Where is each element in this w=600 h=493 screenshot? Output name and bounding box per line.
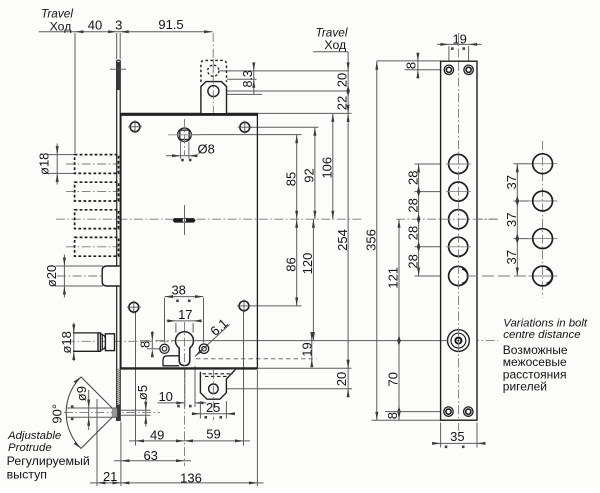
svg-text:ø18: ø18 xyxy=(37,153,52,175)
dim 21-136 line xyxy=(90,482,264,484)
body top edge extension right xyxy=(257,112,351,114)
side faceplate bottom cap xyxy=(116,419,121,421)
screw diam5 leaders xyxy=(121,409,151,411)
extension right screws x=243.5 xyxy=(243,311,245,446)
centreline overlay spindle xyxy=(184,119,186,156)
extension x=97 for 21 xyxy=(96,399,98,486)
plate bolt hole 3 xyxy=(449,210,468,229)
svg-text:10: 10 xyxy=(158,389,172,404)
svg-text:37: 37 xyxy=(504,250,519,264)
extension lines 38 xyxy=(164,298,166,343)
variation bolt hole 3 xyxy=(533,229,553,249)
svg-text:121: 121 xyxy=(386,267,401,289)
svg-text:Ход: Ход xyxy=(324,38,346,52)
extension lines 35 xyxy=(440,423,442,448)
leader top screws y=69.8 xyxy=(405,69,442,71)
dim 121-70-8 chain line xyxy=(398,219,400,420)
lock body bottom edge band xyxy=(121,367,258,369)
arrow 40 right xyxy=(108,30,117,33)
plate top edge extension left xyxy=(377,60,441,62)
euro cylinder profile xyxy=(176,332,194,366)
svg-text:ø20: ø20 xyxy=(44,265,59,287)
front faceplate outline xyxy=(441,61,477,420)
variation hole 4 variant arc xyxy=(546,269,552,283)
cylinder pin collar xyxy=(101,334,103,350)
bottom tab xyxy=(200,369,235,399)
top tab retracted hole dashed xyxy=(208,65,219,76)
plate hole3 centreline xyxy=(396,218,498,220)
arrow 91.5 left xyxy=(120,30,129,33)
svg-text:106: 106 xyxy=(320,157,335,179)
plate centreline vertical xyxy=(458,33,460,431)
dim 28 chain line xyxy=(418,164,420,276)
dim 120 line xyxy=(312,219,314,340)
deadbolt B2 dashed xyxy=(75,182,119,201)
extension faceplate back x=120.9 bottom xyxy=(120,422,122,487)
plate top screw left xyxy=(444,65,453,74)
leader top screws y=127.2 xyxy=(250,126,319,128)
cylinder fixing hole right xyxy=(199,344,208,353)
svg-text:ø18: ø18 xyxy=(59,331,74,353)
svg-text:22: 22 xyxy=(335,96,350,110)
svg-text:8: 8 xyxy=(385,412,400,419)
svg-text:Travel: Travel xyxy=(41,7,73,21)
centreline overlay top tab xyxy=(212,59,214,113)
deadbolt B3 dashed xyxy=(75,210,119,229)
svg-text:85: 85 xyxy=(283,172,298,186)
plate bolt hole 4 xyxy=(449,237,468,256)
svg-text:Регулируемый: Регулируемый xyxy=(7,454,90,468)
top tab hole xyxy=(208,86,219,97)
variation bolt hole 1 xyxy=(533,154,553,174)
svg-text:49: 49 xyxy=(150,428,164,443)
pin centreline y=341 xyxy=(66,340,177,342)
bottom tab hidden top dashes xyxy=(203,373,234,375)
extension lines 25 xyxy=(199,401,201,419)
svg-text:37: 37 xyxy=(504,213,519,227)
svg-text:19: 19 xyxy=(300,342,315,356)
extension lines 19 top xyxy=(448,46,450,66)
plate bottom screw left xyxy=(444,407,453,416)
svg-text:35: 35 xyxy=(450,429,464,444)
dim 85 line xyxy=(296,135,298,220)
dim 8.3 line xyxy=(253,64,255,95)
screw axis dashdot xyxy=(64,412,160,414)
leader solid-circle lower y=94.4 xyxy=(220,93,263,95)
centre axis solid segment xyxy=(184,205,186,235)
variation leaders xyxy=(514,163,534,165)
side faceplate screw area fill xyxy=(117,62,120,90)
top tab solid xyxy=(201,82,227,113)
cylinder axis left dashdot xyxy=(140,340,178,342)
leader 6.1 xyxy=(195,325,230,357)
dim 86 line xyxy=(296,219,298,306)
side faceplate right line xyxy=(119,60,121,420)
top tab retracted dashed xyxy=(201,60,227,82)
svg-text:Ход: Ход xyxy=(50,20,72,34)
svg-text:Variations in bolt: Variations in bolt xyxy=(503,317,588,329)
arrow 91.5 right xyxy=(204,30,213,33)
svg-text:ø9: ø9 xyxy=(74,386,89,401)
svg-text:17: 17 xyxy=(178,307,192,322)
dim 19 top line xyxy=(437,43,482,45)
lock body top edge band xyxy=(121,113,258,116)
horizontal centreline y=219 xyxy=(56,218,362,220)
dim 356 line xyxy=(376,61,378,420)
leader spindle y=134.6 xyxy=(192,134,302,136)
bolt centrelines xyxy=(66,163,119,165)
svg-text:3: 3 xyxy=(115,18,122,33)
deadbolt B1 dashed xyxy=(75,155,119,174)
90deg wedge arc xyxy=(66,377,81,449)
side faceplate hatch section xyxy=(116,367,122,407)
plate cylinder hole inner xyxy=(451,333,466,348)
svg-text:ø5: ø5 xyxy=(135,385,150,400)
bottom tab hole xyxy=(209,384,219,394)
leader bottom tab circle y=388.8 xyxy=(220,388,353,390)
dim 254 arrows xyxy=(347,113,350,122)
extension lines 10 xyxy=(184,370,186,407)
plate bolt hole 2 xyxy=(449,182,468,201)
arrow 40 left xyxy=(75,30,84,33)
cylinder retainer bar xyxy=(163,356,179,366)
svg-text:254: 254 xyxy=(335,229,350,251)
svg-text:8: 8 xyxy=(403,62,418,69)
dim 20 bottom line xyxy=(347,360,349,397)
svg-text:Ø8: Ø8 xyxy=(198,142,215,157)
main axis extension to bottom xyxy=(184,369,186,466)
svg-text:21: 21 xyxy=(103,469,117,484)
dim 63 line xyxy=(114,460,191,462)
bolt20 centreline xyxy=(57,275,120,277)
plate bolt hole 5 xyxy=(449,266,468,285)
leader solid-circle y=91 xyxy=(220,90,350,92)
body screw bottom-right xyxy=(239,301,249,311)
dim 10 line xyxy=(158,402,185,404)
cylinder hole centreline right xyxy=(470,340,498,342)
variation centreline vertical xyxy=(542,141,544,298)
svg-text:19: 19 xyxy=(452,31,466,46)
plate cylinder hole outer xyxy=(448,330,470,352)
leaders plate holes xyxy=(415,163,450,165)
centre bolt diam20 xyxy=(102,266,120,286)
svg-text:выступ: выступ xyxy=(7,468,47,482)
svg-text:356: 356 xyxy=(364,229,379,251)
spindle cross ticks xyxy=(168,134,201,136)
dim 25 line xyxy=(193,413,235,415)
svg-text:28: 28 xyxy=(405,254,420,268)
centreline overlay front plate horizontal xyxy=(442,218,498,220)
grub screw tip xyxy=(112,409,117,417)
svg-text:38: 38 xyxy=(171,282,185,297)
svg-text:120: 120 xyxy=(300,253,315,275)
90deg wedge lines xyxy=(81,377,117,413)
spindle follower circle xyxy=(178,128,192,142)
svg-text:59: 59 xyxy=(206,427,220,442)
leader left hole y=348.3 xyxy=(147,348,161,350)
body screw top-left xyxy=(130,122,140,132)
cylinder pin base xyxy=(105,334,114,351)
dim diam8 line xyxy=(166,155,198,157)
extension line tab centre x=212.6 xyxy=(212,33,214,112)
central slot marker xyxy=(173,218,196,223)
svg-text:86: 86 xyxy=(283,257,298,271)
svg-text:90°: 90° xyxy=(49,404,64,424)
dim 19 line xyxy=(311,332,313,366)
dim diam8 extensions xyxy=(180,142,182,159)
svg-text:28: 28 xyxy=(405,171,420,185)
variation bolt hole 4 xyxy=(533,266,553,286)
dim diam9 line xyxy=(88,390,90,430)
faceplate top screw axis xyxy=(110,68,126,70)
centreline overlay front plate vertical xyxy=(458,62,460,419)
plate bottom edge extension left xyxy=(372,419,442,421)
leader 8.3 reference y=79.3 xyxy=(227,78,257,80)
svg-text:136: 136 xyxy=(180,470,202,485)
bolt20 edge leaders xyxy=(56,265,104,267)
dim 106 line xyxy=(332,113,334,219)
body screw bottom-left xyxy=(129,302,139,312)
extension line faceplate front x=116.7 xyxy=(116,33,118,59)
leader dashed-circle y=70.9 xyxy=(219,70,349,72)
extension lines 17 xyxy=(175,323,177,333)
dim line x=348 travel chain xyxy=(347,52,349,369)
svg-text:centre distance: centre distance xyxy=(503,329,580,341)
cylinder fixing hole left xyxy=(160,344,169,353)
screw diam9 leaders xyxy=(67,407,117,409)
svg-text:28: 28 xyxy=(405,226,420,240)
dim 8 top line xyxy=(417,53,419,79)
bolt1 edge leaders xyxy=(48,154,77,156)
body bottom edge extension right xyxy=(257,367,351,369)
plate cylinder pin ring xyxy=(455,338,461,344)
svg-text:20: 20 xyxy=(335,73,350,87)
hole5 long dash line xyxy=(415,275,450,277)
dim top reference line xyxy=(39,31,213,33)
svg-text:ригелей: ригелей xyxy=(503,380,547,394)
dim 35 line xyxy=(433,442,486,444)
plate bolt hole 5 variant arc xyxy=(462,269,468,283)
plate bolt hole 1 xyxy=(449,154,468,173)
dim 37 chain line xyxy=(516,164,518,276)
plate hole short h-centrelines xyxy=(446,163,471,165)
cylinder pin flange xyxy=(98,333,101,351)
svg-text:8.3: 8.3 xyxy=(241,70,255,87)
centreline overlay euro profile xyxy=(184,322,186,368)
extension left screws x=135.5 xyxy=(135,312,137,446)
svg-text:63: 63 xyxy=(143,448,157,463)
svg-text:Adjustable: Adjustable xyxy=(7,430,61,442)
dim diam18 bolts line xyxy=(56,144,58,185)
deadbolt B4 dashed xyxy=(75,237,119,256)
grub screw in faceplate xyxy=(117,405,120,420)
extension line bolt tip x=75 xyxy=(74,33,76,153)
dim 38 line xyxy=(165,296,204,298)
svg-text:70: 70 xyxy=(386,372,401,386)
body screw top-right xyxy=(240,122,250,132)
lock body outline xyxy=(121,113,258,368)
extension body right x=257.4 bottom xyxy=(256,370,258,486)
bottom tab centreline xyxy=(212,370,214,420)
svg-text:20: 20 xyxy=(334,372,349,386)
dim 49-59 line xyxy=(129,440,250,442)
svg-text:8: 8 xyxy=(137,341,152,348)
svg-text:28: 28 xyxy=(405,198,420,212)
svg-text:92: 92 xyxy=(302,168,317,182)
svg-text:37: 37 xyxy=(504,175,519,189)
side faceplate left line xyxy=(116,60,118,420)
dim diam18 pin line xyxy=(73,323,75,362)
cylinder pin body xyxy=(73,332,98,334)
cylinder pin neck xyxy=(102,335,105,338)
dim 92 line xyxy=(314,127,316,219)
dim 8 cylinder line xyxy=(151,331,153,349)
svg-text:40: 40 xyxy=(88,18,102,33)
side faceplate top cap xyxy=(117,59,121,61)
dim diam20 line xyxy=(63,255,65,298)
plate top screw right xyxy=(464,65,473,74)
svg-text:91.5: 91.5 xyxy=(158,17,183,32)
leader cylinder axis y=340.6 xyxy=(195,340,449,342)
leader bottom screws y=411.6 xyxy=(385,411,442,413)
variation circle h-centrelines xyxy=(529,163,558,165)
dim diam5 line xyxy=(145,399,147,427)
plate bottom screw right xyxy=(464,407,473,416)
leader bottom screws y=305.9 xyxy=(249,305,302,307)
dim 17 line xyxy=(167,320,198,322)
leader 19 reference y=358.8 xyxy=(196,358,317,360)
travel reference line under Khod xyxy=(313,51,348,53)
svg-text:Protrude: Protrude xyxy=(8,442,52,454)
spindle follower square xyxy=(180,130,189,139)
variation bolt hole 2 xyxy=(533,191,553,211)
